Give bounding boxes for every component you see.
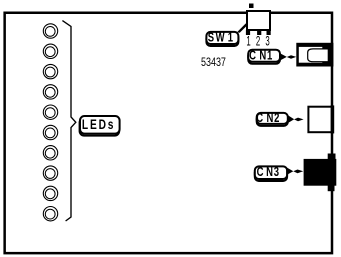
part number 53437 (201, 57, 226, 69)
svg-text:53437: 53437 (201, 57, 226, 69)
label balloon CN1 (248, 49, 280, 63)
svg-text:LEDs: LEDs (82, 116, 115, 132)
svg-text:CN1: CN1 (249, 49, 274, 63)
brace grouping LEDs (62, 21, 75, 221)
switch SW1 pin-1 indicator square (249, 4, 254, 9)
label balloon SW1 (206, 31, 238, 46)
LED D9 (43, 186, 57, 200)
svg-text:CN3: CN3 (257, 166, 281, 180)
switch SW1 body (247, 11, 270, 30)
LED D3 (43, 64, 57, 78)
switch SW1 pin 2 (257, 30, 261, 35)
LED D8 (43, 166, 57, 180)
LED D10 (43, 207, 57, 221)
leader SW1 (237, 23, 247, 32)
leader CN2 (288, 115, 304, 123)
switch SW1 pin 3 (267, 30, 271, 35)
label balloon LEDs (80, 116, 120, 136)
pin number 1 (246, 34, 250, 49)
switch SW1 pin 1 (246, 30, 250, 35)
leader CN3 (286, 167, 303, 175)
connector CN3 (solid) (304, 154, 337, 192)
pin number 2 (256, 34, 260, 49)
svg-text:1: 1 (246, 34, 250, 49)
LED D5 (43, 105, 57, 119)
svg-text:2: 2 (256, 34, 260, 49)
label balloon CN2 (256, 112, 288, 126)
pin number 3 (265, 34, 269, 49)
svg-text:3: 3 (265, 34, 269, 49)
svg-text:SW1: SW1 (208, 31, 235, 45)
LED D1 (43, 24, 57, 38)
label balloon CN3 (255, 166, 287, 181)
LED D7 (43, 146, 57, 160)
connector CN2 (308, 105, 334, 133)
LED D6 (43, 125, 57, 139)
svg-text:CN2: CN2 (256, 112, 281, 126)
LED D2 (43, 44, 57, 58)
connector CN1 (jack) (296, 43, 333, 67)
LED D4 (43, 85, 57, 99)
leader CN1 (280, 53, 297, 61)
